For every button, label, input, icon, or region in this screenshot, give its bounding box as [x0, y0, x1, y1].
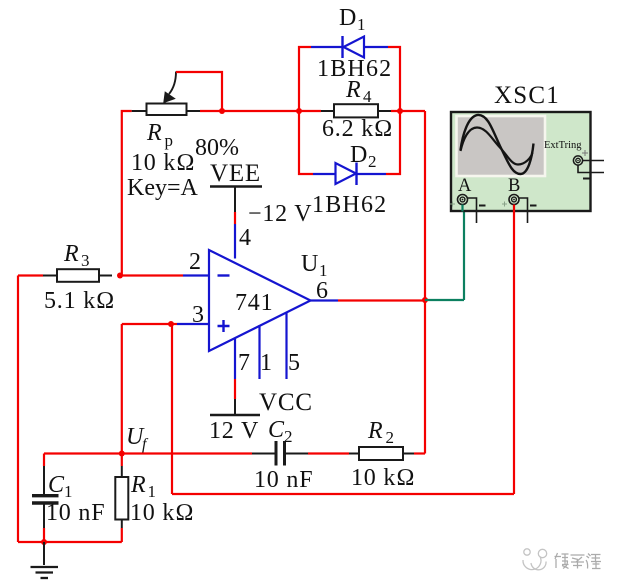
- svg-text:VCC: VCC: [259, 389, 313, 416]
- wire R2 right up: [414, 452, 425, 454]
- resistor R4: [299, 104, 400, 117]
- svg-text:R: R: [345, 77, 361, 103]
- wire bottom: [18, 541, 122, 543]
- svg-text:2: 2: [284, 427, 293, 446]
- svg-text:R: R: [146, 120, 162, 146]
- node junction wiper: [219, 108, 225, 114]
- svg-text:R: R: [63, 241, 79, 267]
- svg-text:80%: 80%: [195, 135, 239, 161]
- svg-text:D: D: [339, 5, 357, 31]
- svg-text:2: 2: [386, 428, 395, 447]
- svg-text:1BH62: 1BH62: [312, 192, 387, 218]
- node C1 ground: [41, 539, 47, 545]
- svg-text:U: U: [301, 251, 319, 277]
- VCC power bar: [210, 379, 260, 415]
- node output: [422, 297, 428, 303]
- diode D2: [313, 163, 386, 186]
- node pin3: [168, 321, 174, 327]
- op-amp U1: [177, 224, 338, 379]
- wire node2 R3 to pin2: [120, 274, 183, 276]
- wire pot left vertical to node 2: [122, 111, 132, 276]
- svg-text:ExtTring: ExtTring: [544, 140, 582, 151]
- diode D1: [311, 36, 388, 58]
- capacitor C1: [32, 454, 59, 543]
- capacitor C2: [252, 441, 308, 466]
- svg-text:R: R: [130, 472, 146, 498]
- potentiometer Rp: [132, 72, 200, 116]
- ground: [31, 542, 59, 578]
- svg-text:10 nF: 10 nF: [46, 500, 105, 526]
- wire R4 node to output vertical: [400, 111, 425, 454]
- svg-text:6.2 kΩ: 6.2 kΩ: [322, 116, 393, 142]
- svg-text:1: 1: [357, 15, 366, 34]
- svg-text:1: 1: [148, 482, 157, 501]
- wire Uf horizontal: [44, 452, 252, 454]
- resistor R2: [349, 447, 414, 460]
- svg-text:5: 5: [288, 350, 301, 376]
- svg-text:10 nF: 10 nF: [254, 467, 313, 493]
- svg-text:C: C: [268, 417, 285, 443]
- wire upper diode loop left: [299, 47, 311, 111]
- wire green scope A: [425, 206, 464, 300]
- svg-text:C: C: [48, 472, 65, 498]
- watermark icon: [523, 549, 547, 570]
- svg-text:6: 6: [316, 278, 329, 304]
- node R4 right: [397, 108, 403, 114]
- wire scope A green stub: [461, 205, 463, 212]
- svg-text:7: 7: [238, 350, 251, 376]
- wire pot right to R4 node: [200, 110, 299, 112]
- svg-text:Key=A: Key=A: [127, 175, 199, 201]
- svg-text:10 kΩ: 10 kΩ: [131, 150, 195, 176]
- svg-text:VEE: VEE: [210, 160, 261, 187]
- svg-text:4: 4: [239, 225, 252, 251]
- svg-text:741: 741: [235, 290, 273, 316]
- svg-text:p: p: [165, 131, 174, 150]
- terminal B: [509, 195, 519, 205]
- wire scope B red stub: [513, 205, 515, 213]
- svg-text:D: D: [350, 142, 368, 168]
- ext trig terminal: [573, 156, 582, 165]
- svg-text:3: 3: [81, 251, 90, 270]
- svg-text:4: 4: [363, 87, 372, 106]
- svg-text:10 kΩ: 10 kΩ: [130, 500, 194, 526]
- svg-text:3: 3: [192, 302, 205, 328]
- resistor R3: [43, 269, 112, 282]
- wire pin3 stub red: [171, 323, 177, 325]
- node Uf: [119, 451, 125, 457]
- wire pin3 to Uf: [122, 324, 171, 454]
- node R4 left: [296, 108, 302, 114]
- oscilloscope XSC1: [450, 112, 604, 223]
- VEE power bar: [210, 187, 262, 225]
- svg-text:A: A: [458, 176, 472, 196]
- watermark text: [555, 553, 602, 569]
- svg-text:5.1 kΩ: 5.1 kΩ: [44, 288, 115, 314]
- svg-text:2: 2: [189, 249, 202, 275]
- svg-text:1: 1: [260, 350, 273, 376]
- svg-text:1: 1: [64, 482, 73, 501]
- svg-text:2: 2: [368, 152, 377, 171]
- svg-text:−12 V: −12 V: [248, 201, 312, 227]
- svg-text:R: R: [367, 418, 383, 444]
- wire wiper to node: [176, 72, 222, 111]
- node pin2: [117, 273, 123, 279]
- svg-text:XSC1: XSC1: [494, 82, 560, 109]
- svg-text:12 V: 12 V: [209, 418, 259, 444]
- wire C2 to R2: [308, 452, 349, 454]
- svg-text:B: B: [508, 176, 521, 196]
- wire scope B down and to pin3: [172, 205, 514, 494]
- resistor R1: [115, 454, 128, 543]
- wire upper diode loop right: [388, 47, 400, 111]
- terminal A: [458, 195, 468, 205]
- wire lower diode loop right: [386, 111, 400, 174]
- wire output to right vertical: [338, 299, 425, 301]
- wire lower diode loop left: [299, 111, 313, 174]
- wire R3 left down: [18, 276, 43, 543]
- svg-text:10 kΩ: 10 kΩ: [351, 465, 415, 491]
